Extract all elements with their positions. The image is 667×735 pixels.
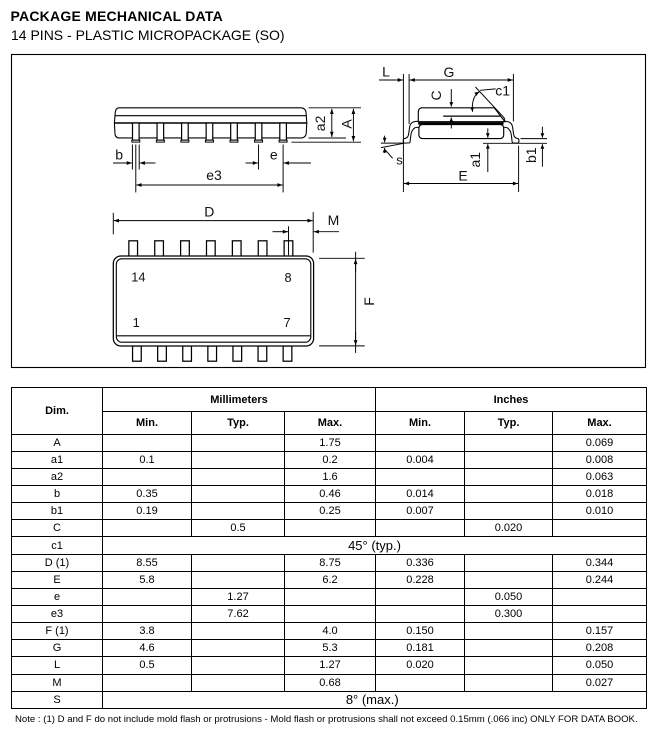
- extension line a2 bottom: [309, 137, 347, 139]
- svg-text:b1: b1: [523, 147, 539, 163]
- b arrows: [113, 162, 132, 164]
- top view pin 11 lead: [206, 241, 215, 256]
- E right extension line: [518, 146, 520, 192]
- s angle line: [381, 143, 404, 147]
- lower body (end view): [419, 125, 504, 139]
- package lid (end view): [418, 108, 505, 122]
- D dimension line: [114, 220, 313, 222]
- svg-text:s: s: [396, 153, 403, 168]
- M pin extension line: [288, 226, 290, 255]
- top view pin 9 lead: [258, 241, 267, 256]
- b1 top extension line: [521, 138, 548, 140]
- pin 4 (side): [205, 123, 213, 142]
- pin1 center extension line: [135, 145, 137, 193]
- svg-text:F: F: [361, 297, 377, 306]
- a1 measure arrows: [487, 128, 489, 138]
- note: [15, 715, 638, 725]
- C measure line with arrows: [450, 89, 452, 107]
- c1 angle arc: [472, 92, 479, 112]
- title: [11, 9, 223, 23]
- svg-text:c1: c1: [495, 82, 510, 98]
- svg-text:a2: a2: [312, 115, 328, 131]
- c1 leader: [480, 89, 496, 90]
- s leader: [385, 150, 392, 159]
- package body (side): [114, 108, 306, 138]
- svg-text:A: A: [339, 119, 355, 129]
- body inner bottom mark line: [117, 335, 310, 337]
- dimensions table: [11, 387, 647, 709]
- top view pin 2 lead: [158, 346, 167, 361]
- svg-text:e: e: [270, 147, 278, 163]
- c1 chamfer diagonal: [475, 87, 504, 121]
- D right extension line: [312, 212, 314, 253]
- svg-text:L: L: [382, 64, 390, 80]
- svg-text:M: M: [328, 212, 340, 228]
- b extension lines: [131, 145, 133, 170]
- top view pin 6 lead: [258, 346, 267, 361]
- F bottom extension line: [319, 345, 365, 347]
- drawing frame box: [12, 55, 646, 368]
- L right / G left extension line: [408, 74, 410, 124]
- right gull-wing lead: [502, 121, 519, 143]
- seating plane extension line: [483, 142, 547, 144]
- body parting line upper: [115, 115, 307, 117]
- body outline outer: [113, 256, 313, 346]
- top view pin 12 lead: [181, 241, 190, 256]
- subtitle: [11, 28, 285, 42]
- dimension A arrow: [352, 109, 354, 141]
- e3 dimension line: [136, 184, 282, 186]
- top view pin 7 lead: [283, 346, 292, 361]
- svg-text:D: D: [204, 204, 214, 220]
- top view pin 8 lead: [284, 241, 293, 256]
- extension line A bottom: [292, 141, 362, 143]
- e extension lines: [258, 145, 260, 170]
- G dimension line: [410, 79, 513, 81]
- top view pin 3 lead: [183, 346, 192, 361]
- M arrows: [273, 231, 289, 233]
- svg-text:C: C: [428, 90, 444, 100]
- lid internal line (C ref): [443, 115, 500, 117]
- svg-text:14: 14: [131, 269, 145, 284]
- pin 1 (side): [132, 123, 140, 142]
- pin 2 (side): [156, 123, 164, 142]
- e arrows: [246, 162, 259, 164]
- svg-text:1: 1: [133, 315, 140, 330]
- svg-text:a1: a1: [467, 152, 483, 168]
- pin 3 (side): [181, 123, 189, 142]
- pin 7 (side): [279, 123, 287, 142]
- svg-text:E: E: [458, 168, 467, 184]
- left gull-wing lead: [403, 121, 420, 143]
- top view pin 10 lead: [232, 241, 241, 256]
- L/E left extension line: [402, 74, 404, 192]
- top view pin 14 lead: [129, 241, 138, 256]
- pin 6 (side): [255, 123, 263, 142]
- top view pin 5 lead: [233, 346, 242, 361]
- pin 5 (side): [230, 123, 238, 142]
- top view pin 1 lead: [133, 346, 142, 361]
- dimension a2 arrow: [331, 109, 333, 137]
- extension line body top: [309, 107, 362, 109]
- thick parting line: [418, 122, 503, 125]
- top view pin 13 lead: [155, 241, 164, 256]
- L dimension arrow: [379, 79, 403, 81]
- svg-text:e3: e3: [206, 167, 222, 183]
- lead attach line: [115, 122, 307, 124]
- F dimension line: [355, 252, 357, 353]
- E dimension line: [404, 183, 518, 185]
- top view pin 4 lead: [208, 346, 217, 361]
- svg-text:7: 7: [284, 315, 291, 330]
- svg-text:G: G: [444, 64, 455, 80]
- D left extension line: [112, 213, 114, 235]
- b1 measure arrows: [541, 127, 543, 138]
- G right extension line: [512, 74, 514, 122]
- svg-text:b: b: [115, 147, 123, 163]
- F top extension line: [319, 257, 365, 259]
- s tick with arrows: [384, 136, 386, 143]
- body outline inner: [116, 259, 310, 342]
- svg-text:8: 8: [284, 270, 291, 285]
- s horizontal ref line: [381, 142, 404, 144]
